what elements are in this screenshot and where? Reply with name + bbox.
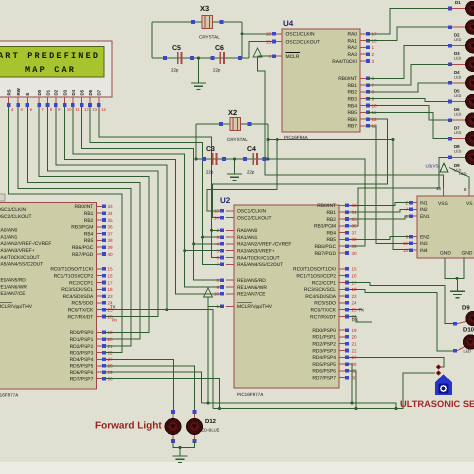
svg-text:33: 33 <box>108 204 114 209</box>
pin U1 RB0/INT <box>96 205 102 207</box>
wire U2 RA1 tap <box>203 236 222 238</box>
pin U2 RB5 <box>339 238 345 240</box>
svg-text:35: 35 <box>352 217 358 222</box>
pin U1 MCLR overline <box>0 301 12 303</box>
svg-text:23: 23 <box>108 294 114 299</box>
svg-text:IN4: IN4 <box>420 248 428 254</box>
svg-text:IN3: IN3 <box>420 241 428 247</box>
wire X2 capacitor rail <box>196 158 268 160</box>
pin U4 RB7 <box>360 125 368 127</box>
svg-text:3: 3 <box>372 59 375 64</box>
ground U3 <box>457 278 459 291</box>
pin U3 IN4 <box>411 249 417 251</box>
svg-text:D5: D5 <box>80 89 85 95</box>
svg-text:15: 15 <box>352 267 358 272</box>
led D12a <box>171 410 175 414</box>
led D6 <box>448 100 452 104</box>
pin U2 RE2/AN7/CE <box>226 293 234 295</box>
svg-text:RB2: RB2 <box>326 217 336 223</box>
capacitor C6 <box>219 52 221 64</box>
wire U4 to LED D4 <box>368 64 448 85</box>
pin U2 RB1 <box>339 211 345 213</box>
svg-text:RB1: RB1 <box>326 210 336 216</box>
svg-text:14: 14 <box>214 215 220 220</box>
svg-text:37: 37 <box>108 231 114 236</box>
crystal X3 <box>202 16 212 29</box>
svg-text:RC4/SDI/SDA: RC4/SDI/SDA <box>63 294 94 300</box>
wire U2 RC2 to LED D10 <box>349 283 453 324</box>
pin U2 RA1/AN1 <box>226 236 234 238</box>
node X2 rail left <box>195 158 198 161</box>
ultrasonic sensor pins <box>436 364 441 369</box>
svg-text:LED-BLUE: LED-BLUE <box>199 428 220 433</box>
svg-text:20: 20 <box>352 335 358 340</box>
svg-text:RB3: RB3 <box>347 97 357 103</box>
svg-text:16: 16 <box>436 186 441 191</box>
svg-text:22: 22 <box>108 350 114 355</box>
svg-text:RB3/PGM: RB3/PGM <box>71 225 93 231</box>
svg-text:RA0/AN0: RA0/AN0 <box>237 228 258 234</box>
svg-text:EN2: EN2 <box>420 234 430 240</box>
pin U1 RB6/PGC <box>96 246 102 248</box>
pin U2 RD2/PSP2 <box>339 343 345 345</box>
pin U2 RC1/T1OSI/CCP2 <box>339 275 345 277</box>
svg-text:RB4: RB4 <box>347 103 357 109</box>
pin U2 RB3/PGM <box>339 225 345 227</box>
svg-text:LED: LED <box>464 350 472 354</box>
svg-text:3: 3 <box>216 235 219 240</box>
pin U3 EN2 <box>411 236 417 238</box>
wire U4 MCLR net <box>258 55 275 57</box>
wire U2 RC3 to LED D11 <box>349 289 453 351</box>
pin U2 RB0/INT <box>339 204 345 206</box>
svg-text:RC3/SCK/SCL: RC3/SCK/SCL <box>61 287 93 293</box>
svg-text:LED: LED <box>454 57 462 61</box>
svg-text:RB5: RB5 <box>84 238 94 244</box>
pin U1 RC4/SDI/SDA <box>96 295 102 297</box>
wire U2 RA0 tap <box>212 229 222 231</box>
wire U1 TX to rail b <box>106 310 213 409</box>
svg-text:19: 19 <box>352 328 358 333</box>
wire U1 RD7 to rail b <box>106 379 220 409</box>
svg-text:RA1/AN1: RA1/AN1 <box>0 234 18 240</box>
svg-text:RB7/PGD: RB7/PGD <box>72 252 94 258</box>
wire X2 to driver column <box>268 139 393 141</box>
svg-text:VSS: VSS <box>438 201 449 207</box>
svg-text:RC2/CCP1: RC2/CCP1 <box>312 280 336 286</box>
pin U3 IN3 <box>411 242 417 244</box>
svg-text:LED: LED <box>454 38 462 42</box>
wire LCD RW bus <box>18 104 131 346</box>
pin U2 OSC1/CLKIN <box>226 210 234 212</box>
led D11 <box>453 349 457 353</box>
pin U3 IN2 <box>411 208 417 210</box>
svg-text:21: 21 <box>352 342 358 347</box>
pin U2 OSC2/CLKOUT <box>226 217 234 219</box>
wire U2 RD6 to rail b <box>349 371 356 409</box>
svg-text:LED-: LED- <box>459 172 468 176</box>
svg-text:RB0/INT: RB0/INT <box>338 76 357 82</box>
svg-text:D6: D6 <box>88 89 93 95</box>
pin U1 RD7/PSP7 <box>96 378 102 380</box>
svg-text:E: E <box>25 93 30 96</box>
pin U2 RC5/SDO <box>339 302 345 304</box>
svg-text:RC7/RX/DT: RC7/RX/DT <box>67 314 93 320</box>
wire U4 to LED D3 <box>368 46 448 79</box>
svg-text:OSC2/CLKOUT: OSC2/CLKOUT <box>286 39 321 45</box>
pin U1 RD4/PSP4 <box>96 358 102 360</box>
pin U1 RD1/PSP1 <box>96 338 102 340</box>
svg-text:22p: 22p <box>206 170 214 175</box>
svg-text:RD1/PSP1: RD1/PSP1 <box>70 337 94 343</box>
svg-text:RA4/T0CKI/C1OUT: RA4/T0CKI/C1OUT <box>237 255 280 261</box>
pin U2 RD6/PSP6 <box>339 370 345 372</box>
pin U4 RB2 <box>360 91 368 93</box>
svg-text:16: 16 <box>352 274 358 279</box>
wire U2 RD4 to ultrasonic <box>349 357 444 367</box>
led D12b <box>193 410 197 414</box>
pin U4 RA0 <box>360 33 368 35</box>
svg-text:RC5/SDO: RC5/SDO <box>72 301 94 307</box>
svg-text:RC2/CCP1: RC2/CCP1 <box>69 280 93 286</box>
svg-text:Forward Light: Forward Light <box>95 421 162 432</box>
wire driver IN4 column <box>393 140 409 250</box>
svg-text:GND: GND <box>440 251 451 257</box>
pin U2 RA3/AN3/VREF+ <box>226 250 234 252</box>
wire LCD D3 bus <box>65 104 222 294</box>
svg-text:RE0/AN5/RD: RE0/AN5/RD <box>237 278 266 284</box>
pin U3 IN1 <box>411 202 417 204</box>
wire U2 RD5 to rail a <box>349 364 352 403</box>
svg-text:15: 15 <box>266 39 272 44</box>
led D7 <box>448 118 452 122</box>
led D4 <box>448 63 452 67</box>
bottom margin strip <box>0 462 474 474</box>
svg-text:RB2: RB2 <box>84 218 94 224</box>
wire LCD D6 bus <box>90 104 222 264</box>
svg-text:RD0/PSP0: RD0/PSP0 <box>70 330 94 336</box>
pin U1 RC1/T1OSI/CCP2 <box>96 275 102 277</box>
svg-text:X2: X2 <box>228 108 237 117</box>
svg-text:RD2/PSP2: RD2/PSP2 <box>312 342 336 348</box>
svg-text:D4: D4 <box>71 89 76 95</box>
ground X2 <box>234 159 236 174</box>
svg-text:RB0/INT: RB0/INT <box>317 203 336 209</box>
svg-text:D8: D8 <box>454 144 460 149</box>
wire LCD D2 bus <box>56 104 167 310</box>
svg-text:RA2/AN2/VREF-/CVREF: RA2/AN2/VREF-/CVREF <box>0 241 51 247</box>
pin U1 RC3/SCK/SCL <box>96 288 102 290</box>
svg-text:RB5: RB5 <box>347 110 357 116</box>
wire X3 capacitor rail <box>152 57 249 59</box>
svg-text:MAP CAR: MAP CAR <box>25 65 76 75</box>
svg-text:U3(VS): U3(VS) <box>426 164 441 169</box>
svg-text:RB3/PGM: RB3/PGM <box>314 224 336 230</box>
pin U1 RD6/PSP6 <box>96 371 102 373</box>
svg-text:22: 22 <box>352 348 358 353</box>
wire U2 MCLR net <box>208 306 222 403</box>
capacitor C4 <box>252 153 254 165</box>
pic U2 <box>234 205 339 388</box>
svg-text:C3: C3 <box>206 146 215 153</box>
svg-text:8: 8 <box>216 278 219 283</box>
svg-text:18: 18 <box>108 287 114 292</box>
pin U2 RE0/AN5/RD <box>226 279 234 281</box>
capacitor C5 <box>177 52 179 64</box>
node X2 right leg junction <box>267 138 270 141</box>
wire U4 OSC2 to C6 <box>249 42 274 59</box>
svg-text:22p: 22p <box>247 170 255 175</box>
wire U2 RB to U3 IN2 <box>349 209 409 212</box>
wire LCD RS bus <box>9 104 122 353</box>
node X2 ground tap <box>233 158 236 161</box>
pic U1 <box>0 203 96 389</box>
wire X2 left leg <box>195 124 197 159</box>
svg-text:9: 9 <box>216 285 219 290</box>
svg-text:11: 11 <box>75 107 80 112</box>
pin U4 MCLR <box>274 55 282 57</box>
pic U4 <box>282 29 360 132</box>
svg-text:RD7/PSP7: RD7/PSP7 <box>70 376 94 382</box>
svg-text:23: 23 <box>352 294 358 299</box>
svg-text:RB1: RB1 <box>84 211 94 217</box>
led D8 <box>448 137 452 141</box>
node IN4 column junction <box>392 138 395 141</box>
led D3 <box>448 44 452 48</box>
svg-text:D10: D10 <box>463 327 474 334</box>
pin U1 RB3/PGM <box>96 226 102 228</box>
wire U2 OSC1 net <box>207 140 277 211</box>
pin U1 RB7/PGD <box>96 253 102 255</box>
power flag U2 RE <box>204 288 213 297</box>
wire U2 RA3 tap <box>185 250 222 252</box>
ground X3 <box>198 58 200 83</box>
svg-text:D7: D7 <box>454 126 460 131</box>
svg-text:22p: 22p <box>171 68 179 73</box>
svg-text:RB0/INT: RB0/INT <box>75 204 94 210</box>
svg-text:RB7: RB7 <box>347 124 357 130</box>
led D9 <box>448 156 452 160</box>
wire U2 RB3 to LED D9 <box>349 157 448 226</box>
wire U4 to LED D2 <box>368 27 448 40</box>
driver U3 L293D <box>417 196 474 258</box>
svg-text:RB6: RB6 <box>347 117 357 123</box>
svg-text:LED: LED <box>454 150 462 154</box>
pin U4 MCLR overline <box>286 51 301 53</box>
pin U2 RA4/T0CKI/C1OUT <box>226 257 234 259</box>
wire U1 RD5 to forward LED D12b <box>106 366 195 412</box>
svg-text:PIC16F84A: PIC16F84A <box>284 135 309 140</box>
svg-text:39: 39 <box>108 245 114 250</box>
svg-text:RA1: RA1 <box>347 38 357 44</box>
pin U2 RC0/T1OSO/T1CKI <box>339 268 345 270</box>
svg-text:40: 40 <box>352 251 358 256</box>
svg-text:RD5/PSP5: RD5/PSP5 <box>70 364 94 370</box>
svg-text:X3: X3 <box>200 4 209 13</box>
pin U4 RB4 <box>360 105 368 107</box>
svg-text:RE1/AN6/WR: RE1/AN6/WR <box>0 284 27 290</box>
pin U2 RA5/AN4/SS/C2OUT <box>226 263 234 265</box>
svg-text:2: 2 <box>372 52 375 57</box>
svg-text:2: 2 <box>216 228 219 233</box>
svg-text:D2: D2 <box>54 89 59 95</box>
svg-text:39: 39 <box>352 244 358 249</box>
led D2 <box>448 25 452 29</box>
svg-text:RD0/PSP0: RD0/PSP0 <box>312 328 336 334</box>
svg-text:RB5: RB5 <box>326 237 336 243</box>
svg-text:D3: D3 <box>63 89 68 95</box>
svg-text:16: 16 <box>108 274 114 279</box>
svg-text:RB1: RB1 <box>347 83 357 89</box>
svg-text:RC3/SCK/SCL: RC3/SCK/SCL <box>304 287 336 293</box>
svg-text:36: 36 <box>352 224 358 229</box>
pin U2 RC3/SCK/SCL <box>339 288 345 290</box>
pin U2 RC2/CCP1 <box>339 282 345 284</box>
pin U2 RD7/PSP7 <box>339 377 345 379</box>
svg-text:RD3/PSP3: RD3/PSP3 <box>70 350 94 356</box>
svg-text:RD1/PSP1: RD1/PSP1 <box>312 335 336 341</box>
svg-text:RA0: RA0 <box>347 32 357 38</box>
pin U2 RC4/SDI/SDA <box>339 295 345 297</box>
crystal X2 <box>230 118 240 131</box>
svg-text:RB4: RB4 <box>326 230 336 236</box>
svg-text:D5: D5 <box>454 88 460 93</box>
wire D12 cathodes to ground <box>173 441 195 448</box>
svg-text:16: 16 <box>266 32 272 37</box>
svg-text:33: 33 <box>352 203 358 208</box>
capacitor C3 <box>212 153 214 165</box>
svg-text:RC4/SDI/SDA: RC4/SDI/SDA <box>305 294 336 300</box>
svg-text:12: 12 <box>84 107 89 112</box>
svg-text:38: 38 <box>352 237 358 242</box>
wire U1 RD4 to forward LED D12a <box>106 359 173 412</box>
svg-text:RD4/PSP4: RD4/PSP4 <box>312 355 336 361</box>
pin U4 RB5 <box>360 111 368 113</box>
wire rail a under U2 <box>202 403 397 409</box>
svg-text:RE2/AN7/CE: RE2/AN7/CE <box>0 291 26 297</box>
svg-text:RB6/PGC: RB6/PGC <box>72 245 94 251</box>
pin U4 RA3 <box>360 53 368 55</box>
pin U4 RB1 <box>360 84 368 86</box>
svg-text:D2: D2 <box>454 33 460 38</box>
svg-text:PIC16F877A: PIC16F877A <box>0 393 19 398</box>
svg-text:IN2: IN2 <box>420 207 428 213</box>
svg-text:15: 15 <box>403 248 409 253</box>
pin U1 RC6/TX/CK <box>96 309 102 311</box>
svg-text:GND: GND <box>462 251 473 257</box>
svg-text:RB7/PGD: RB7/PGD <box>315 251 337 257</box>
pin U1 RC7/RX/DT <box>96 316 102 318</box>
svg-text:12: 12 <box>372 117 378 122</box>
pin U1 RB5 <box>96 239 102 241</box>
wire LCD D0 bus <box>39 104 149 332</box>
svg-text:RA2/AN2/VREF-/CVREF: RA2/AN2/VREF-/CVREF <box>237 242 291 248</box>
pin U4 RB3 <box>360 98 368 100</box>
svg-text:LED: LED <box>454 75 462 79</box>
svg-text:LED: LED <box>454 94 462 98</box>
svg-text:RA4/T0CKI/C1OUT: RA4/T0CKI/C1OUT <box>0 255 40 261</box>
pin U4 RA4/T0CKI <box>360 60 368 62</box>
svg-text:C5: C5 <box>172 45 181 52</box>
svg-text:34: 34 <box>352 210 358 215</box>
svg-text:RD4/PSP4: RD4/PSP4 <box>70 357 94 363</box>
lcd screen <box>0 47 104 78</box>
wire LCD E bus <box>27 104 140 339</box>
wire X2 top rail <box>196 123 268 125</box>
svg-text:RC6/TX/CK: RC6/TX/CK <box>310 308 336 314</box>
svg-text:OSC1/CLKIN: OSC1/CLKIN <box>0 207 27 213</box>
svg-text:RA0/AN0: RA0/AN0 <box>0 228 18 234</box>
pin U1 RD2/PSP2 <box>96 345 102 347</box>
svg-text:D3: D3 <box>454 51 460 56</box>
svg-text:RA3/AN3/VREF+: RA3/AN3/VREF+ <box>0 248 35 254</box>
pin U2 RC7/RX/DT <box>339 316 345 318</box>
svg-text:10: 10 <box>214 292 220 297</box>
svg-text:RD6/PSP6: RD6/PSP6 <box>70 370 94 376</box>
svg-text:RA1/AN1: RA1/AN1 <box>237 235 258 241</box>
svg-text:RS: RS <box>7 89 12 95</box>
node U3 ground junction <box>456 277 459 280</box>
svg-text:21: 21 <box>108 344 114 349</box>
node D12 ground junction <box>179 446 182 449</box>
svg-text:RD2/PSP2: RD2/PSP2 <box>70 344 94 350</box>
svg-text:4: 4 <box>268 54 271 59</box>
svg-text:10: 10 <box>67 107 72 112</box>
pin U4 RB6 <box>360 118 368 120</box>
wire LCD D5 bus <box>82 104 222 280</box>
wire LCD D7 bus <box>99 104 222 258</box>
svg-text:MCLR: MCLR <box>286 54 300 60</box>
wire U2 OSC2 net <box>212 119 387 218</box>
power flag U3(VS) <box>440 163 448 172</box>
svg-text:RB6/PGC: RB6/PGC <box>315 244 337 250</box>
svg-text:RD7/PSP7: RD7/PSP7 <box>312 376 336 382</box>
ground D12 <box>179 448 181 453</box>
pin U2 RB2 <box>339 218 345 220</box>
pin U2 RB7/PGD <box>339 252 345 254</box>
led D1 <box>448 7 452 11</box>
svg-text:U2: U2 <box>220 196 231 205</box>
svg-text:D9: D9 <box>462 305 470 312</box>
wire U4 to LED D5 <box>368 83 448 92</box>
wire X3 right leg to U4 OSC1 <box>241 22 243 58</box>
wire X2 right leg <box>267 124 269 159</box>
pin U2 RD3/PSP3 <box>339 350 345 352</box>
power flag U4 MCLR <box>253 48 262 57</box>
pin U1 RB2 <box>96 219 102 221</box>
pin U1 RB4 <box>96 233 102 235</box>
svg-text:C6: C6 <box>215 45 224 52</box>
svg-text:RE0/AN5/RD: RE0/AN5/RD <box>0 278 26 284</box>
svg-text:Rx: Rx <box>112 317 118 322</box>
svg-text:RC1/T1OSI/CCP2: RC1/T1OSI/CCP2 <box>54 274 94 280</box>
pin U3 EN1 <box>411 215 417 217</box>
clipped label tag <box>0 194 5 201</box>
pin U1 RC0/T1OSO/T1CKI <box>96 268 102 270</box>
pin U4 RA1 <box>360 40 368 42</box>
svg-text:D1: D1 <box>45 89 50 95</box>
svg-text:EN1: EN1 <box>420 214 430 220</box>
wire U2 RB to U3 IN1 <box>349 203 409 206</box>
pin U2 RC6/TX/CK <box>339 309 345 311</box>
svg-text:D0: D0 <box>37 89 42 95</box>
svg-text:6: 6 <box>216 255 219 260</box>
pin U3 VS 8 <box>468 189 470 196</box>
pin U1 RD3/PSP3 <box>96 352 102 354</box>
wire U2 RB to U3 EN2 <box>349 237 409 240</box>
svg-text:13: 13 <box>92 107 97 112</box>
pin U2 RD1/PSP1 <box>339 336 345 338</box>
